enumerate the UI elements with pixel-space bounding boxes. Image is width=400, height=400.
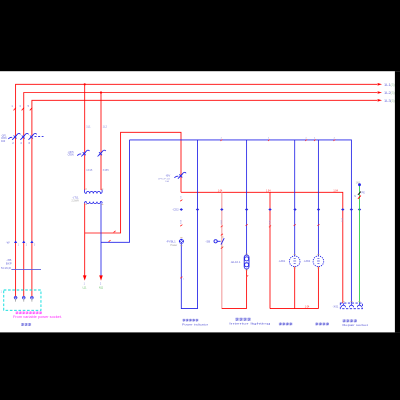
svg-text:-HW2: -HW2 bbox=[304, 259, 311, 263]
svg-text:1.04: 1.04 bbox=[305, 307, 310, 309]
svg-text:-CD2: -CD2 bbox=[172, 208, 179, 212]
svg-text:-BV: -BV bbox=[166, 173, 171, 177]
svg-text:(3): (3) bbox=[391, 99, 395, 103]
svg-text:(3): (3) bbox=[391, 83, 395, 87]
svg-text:Repair socket: Repair socket bbox=[342, 323, 368, 327]
svg-text:BXP: BXP bbox=[6, 262, 12, 266]
svg-text:-SB: -SB bbox=[205, 239, 210, 243]
svg-text:1L2: 1L2 bbox=[103, 125, 108, 129]
svg-text:MXN: MXN bbox=[268, 220, 270, 225]
svg-text:-PYBL1: -PYBL1 bbox=[166, 240, 176, 244]
svg-text:X155: X155 bbox=[103, 168, 110, 172]
svg-text:From variable power socket.: From variable power socket. bbox=[13, 315, 62, 319]
svg-text:1N1: 1N1 bbox=[356, 182, 361, 185]
svg-text:Interior lighting: Interior lighting bbox=[229, 322, 271, 326]
svg-text:D20: D20 bbox=[1, 139, 6, 143]
svg-text:-XS1: -XS1 bbox=[333, 304, 339, 308]
svg-text:-HW1: -HW1 bbox=[279, 259, 286, 263]
svg-text:(3): (3) bbox=[391, 91, 395, 95]
svg-text:10A: 10A bbox=[165, 180, 169, 183]
svg-text:1.04: 1.04 bbox=[333, 190, 338, 192]
svg-text:1.04: 1.04 bbox=[266, 190, 271, 192]
svg-text:-W: -W bbox=[6, 241, 10, 245]
svg-text:-(T)1: -(T)1 bbox=[72, 195, 79, 199]
svg-text:L11: L11 bbox=[83, 287, 87, 290]
svg-text:1.04: 1.04 bbox=[218, 190, 223, 192]
svg-text:Power: Power bbox=[170, 244, 177, 247]
svg-text:C65N: C65N bbox=[68, 153, 74, 157]
svg-text:1L1: 1L1 bbox=[86, 125, 91, 129]
svg-text:N: N bbox=[354, 195, 356, 198]
svg-text:N11: N11 bbox=[99, 287, 104, 290]
svg-text:Power indicator: Power indicator bbox=[182, 322, 208, 326]
svg-text:1X15: 1X15 bbox=[86, 168, 93, 172]
svg-text:5×16,R: 5×16,R bbox=[1, 266, 12, 270]
svg-text:2.2kVA: 2.2kVA bbox=[72, 200, 80, 203]
svg-text:-EL10.1: -EL10.1 bbox=[231, 260, 241, 264]
svg-text:PE: PE bbox=[362, 191, 366, 194]
